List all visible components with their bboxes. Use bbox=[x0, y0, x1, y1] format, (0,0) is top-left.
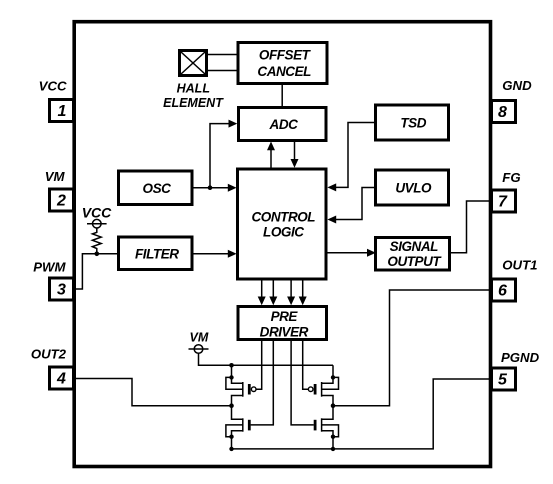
svg-text:CANCEL: CANCEL bbox=[257, 64, 311, 79]
block FILTER bbox=[119, 237, 193, 270]
pin 6 box (OUT1) bbox=[492, 279, 516, 301]
node OUT2 bbox=[229, 403, 234, 408]
pin 1 box (VCC) bbox=[50, 100, 74, 122]
wire VM to H-bridge rail bbox=[199, 353, 334, 365]
svg-text:2: 2 bbox=[56, 193, 66, 210]
svg-text:VCC: VCC bbox=[82, 204, 112, 220]
wire control logic to pre driver (arrow 4) bbox=[299, 279, 307, 305]
svg-text:PGND: PGND bbox=[501, 350, 540, 365]
resistor R1 (PWM pull-up) bbox=[92, 228, 101, 254]
svg-text:7: 7 bbox=[498, 194, 508, 211]
svg-text:4: 4 bbox=[56, 371, 66, 388]
pin 2 box (VM) bbox=[50, 189, 74, 211]
wire hall to offset cancel (upper) bbox=[207, 54, 239, 56]
svg-text:OUTPUT: OUTPUT bbox=[387, 254, 442, 269]
pin 5 box (PGND) bbox=[492, 368, 516, 390]
svg-text:FILTER: FILTER bbox=[135, 246, 179, 261]
svg-text:HALL: HALL bbox=[177, 81, 210, 95]
wire control logic to pre driver (arrow 1) bbox=[258, 279, 266, 305]
svg-text:CONTROL: CONTROL bbox=[252, 210, 316, 225]
svg-text:UVLO: UVLO bbox=[395, 181, 432, 196]
svg-text:1: 1 bbox=[58, 103, 67, 120]
wire control logic to SIGNAL OUTPUT (arrow) bbox=[326, 249, 376, 257]
pin 8 box (GND) bbox=[492, 101, 516, 123]
svg-text:OSC: OSC bbox=[143, 181, 172, 196]
block SIGNAL OUTPUT bbox=[376, 238, 450, 271]
chip outline bbox=[74, 22, 490, 467]
svg-text:ELEMENT: ELEMENT bbox=[163, 96, 224, 110]
svg-text:LOGIC: LOGIC bbox=[263, 224, 304, 239]
svg-text:ADC: ADC bbox=[269, 117, 299, 132]
wire pin 4 (OUT2) to bridge node bbox=[74, 379, 232, 406]
svg-text:TSD: TSD bbox=[400, 116, 426, 131]
wire ADC to control logic (down arrow) bbox=[291, 141, 299, 168]
svg-text:VM: VM bbox=[45, 169, 66, 184]
wire pre driver to Q2 gate bbox=[251, 340, 274, 425]
node junction PWM/pullup bbox=[95, 252, 100, 257]
svg-text:PRE: PRE bbox=[271, 309, 299, 324]
block ADC bbox=[239, 108, 327, 141]
svg-text:OUT2: OUT2 bbox=[31, 347, 67, 362]
node OUT1 bbox=[331, 403, 336, 408]
svg-text:OUT1: OUT1 bbox=[502, 257, 537, 272]
pin 7 box (FG) bbox=[492, 190, 516, 212]
wire control logic to pre driver (arrow 3) bbox=[287, 279, 295, 305]
svg-text:FG: FG bbox=[502, 170, 520, 185]
svg-text:5: 5 bbox=[498, 372, 508, 389]
wire PWM pin to FILTER bbox=[74, 254, 119, 289]
wire TSD to control logic (arrow) bbox=[327, 123, 375, 192]
wire hall to offset cancel (lower) bbox=[207, 70, 239, 72]
terminal VM bbox=[189, 345, 209, 354]
terminal VCC bbox=[87, 219, 107, 228]
wire SIGNAL OUTPUT to pin 7 (FG) bbox=[450, 201, 492, 253]
wire bridge sources to pin 5 (PGND) bbox=[232, 379, 492, 449]
svg-text:PWM: PWM bbox=[33, 260, 66, 275]
transistor Q2 (low-side NMOS left) bbox=[226, 406, 249, 449]
block CONTROL LOGIC bbox=[238, 169, 327, 279]
node junction on OSC output bbox=[208, 185, 213, 190]
svg-text:3: 3 bbox=[57, 282, 66, 299]
block TSD bbox=[376, 105, 449, 140]
node junction bottom rail left bbox=[229, 447, 233, 451]
block OFFSET CANCEL bbox=[238, 43, 327, 84]
block UVLO bbox=[376, 170, 449, 205]
svg-text:DRIVER: DRIVER bbox=[260, 325, 309, 340]
transistor Q4 (low-side NMOS right) bbox=[315, 406, 338, 449]
wire control logic to ADC (up arrow) bbox=[267, 142, 275, 170]
svg-text:VCC: VCC bbox=[39, 79, 67, 94]
svg-text:OFFSET: OFFSET bbox=[259, 48, 312, 63]
wire OSC to control logic (arrow) bbox=[192, 184, 237, 192]
pin 3 box (PWM) bbox=[50, 278, 74, 300]
hall element box bbox=[180, 51, 207, 76]
wire UVLO to control logic (arrow) bbox=[327, 188, 375, 224]
wire pin 6 (OUT1) to bridge node bbox=[333, 290, 492, 406]
transistor Q1 (high-side PMOS left) bbox=[226, 365, 256, 405]
node junction bottom rail right bbox=[331, 447, 335, 451]
transistor Q3 (high-side PMOS right) bbox=[308, 365, 338, 405]
node junction VM / Q1 source bbox=[229, 363, 234, 368]
wire offset cancel to ADC bbox=[281, 84, 283, 108]
svg-text:SIGNAL: SIGNAL bbox=[390, 239, 439, 254]
wire pre driver to Q3 gate bbox=[303, 340, 309, 390]
pin 4 box (OUT2) bbox=[50, 367, 74, 389]
wire pre driver to Q4 gate bbox=[291, 340, 314, 425]
wire control logic to pre driver (arrow 2) bbox=[269, 279, 277, 305]
block PRE DRIVER bbox=[238, 307, 327, 340]
svg-text:8: 8 bbox=[498, 104, 507, 121]
block OSC bbox=[119, 171, 193, 205]
wire pre driver to Q1 gate bbox=[256, 340, 262, 390]
wire FILTER to control logic (arrow) bbox=[192, 250, 237, 258]
svg-text:6: 6 bbox=[498, 283, 507, 300]
svg-text:VM: VM bbox=[190, 331, 209, 345]
wire OSC junction to ADC (arrow) bbox=[210, 120, 237, 188]
svg-text:GND: GND bbox=[502, 78, 532, 93]
